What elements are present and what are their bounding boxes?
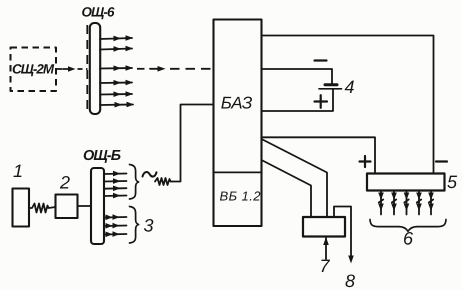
svg-text:5: 5: [447, 172, 458, 192]
box СЩ-2М (dashed unit): [11, 48, 57, 92]
arrow on axis line: [150, 66, 166, 72]
svg-text:7: 7: [319, 256, 330, 276]
minus label of battery: [315, 59, 327, 61]
AC tilde: [143, 172, 157, 177]
plus label of 5: [360, 156, 371, 167]
step wire to arrow 8: [334, 207, 351, 258]
svg-text:ОЩ-Б: ОЩ-Б: [83, 148, 121, 164]
svg-text:3: 3: [143, 215, 153, 235]
wire battery top: [262, 69, 333, 84]
radiation arrow a1: [100, 35, 133, 41]
radiation arrow a2: [100, 46, 133, 52]
bottom group arrow b2: [104, 223, 127, 229]
wire battery bottom: [262, 90, 334, 112]
bar ОЩ-Б: [91, 168, 104, 244]
dashed axis line to БАЗ: [137, 68, 213, 70]
cable lower diagonal to 7: [262, 160, 312, 217]
brace bottom group: [130, 207, 139, 244]
svg-text:2: 2: [59, 172, 70, 192]
divider line of block: [214, 171, 262, 173]
box 2: [56, 195, 78, 219]
screen dashed line left of radiator: [86, 25, 88, 113]
down arrow d2: [391, 191, 397, 215]
svg-text:8: 8: [345, 271, 355, 290]
wire dashed feed СЩ-2М to ОЩ-6: [57, 68, 88, 70]
arrow 7 up into box: [323, 237, 329, 259]
box 5: [367, 174, 445, 191]
down arrow d1: [378, 191, 384, 215]
arrowhead 8: [348, 256, 354, 264]
arrow on feed line: [63, 66, 76, 72]
box 7: [303, 217, 345, 237]
radiation arrow a3 (axis): [100, 65, 133, 71]
box 1: [13, 189, 30, 227]
down arrow d3: [404, 191, 410, 215]
battery 4 short plate: [325, 83, 337, 86]
wire to plus of 5: [262, 137, 376, 173]
brace top group: [130, 165, 139, 200]
svg-text:1: 1: [13, 161, 23, 181]
radiation arrow a5: [100, 91, 133, 97]
battery 4 long plate: [319, 88, 342, 90]
squiggle wire 1 to 2: [29, 204, 56, 213]
wire top bus to minus of 5: [262, 36, 434, 174]
squiggle wire after tilde: [155, 178, 173, 185]
brace 6: [370, 220, 446, 232]
svg-text:6: 6: [403, 228, 414, 248]
svg-text:БАЗ: БАЗ: [221, 93, 253, 112]
radiation arrow a4: [100, 80, 133, 86]
top group arrow t2: [104, 178, 127, 184]
wire tilde up to БАЗ: [173, 105, 214, 182]
down arrow d4: [416, 191, 422, 215]
svg-text:ОЩ-6: ОЩ-6: [81, 4, 115, 19]
plus label of battery: [315, 95, 328, 108]
block БАЗ / ВБ 1.2: [214, 20, 262, 227]
svg-text:СЩ-2М: СЩ-2М: [12, 61, 55, 76]
top group arrow t3: [104, 186, 127, 192]
radiation arrow a6: [100, 102, 134, 108]
radiator bar ОЩ-6: [90, 23, 100, 114]
cable upper diagonal to 7: [262, 139, 328, 217]
svg-text:ВБ 1.2: ВБ 1.2: [219, 188, 261, 203]
bottom group arrow b3: [104, 231, 127, 237]
svg-text:4: 4: [344, 77, 354, 97]
wire 2 to bar: [78, 205, 92, 207]
top group arrow t4: [104, 193, 127, 199]
bottom group arrow b1: [104, 214, 127, 220]
down arrow d5: [428, 191, 434, 215]
minus label of 5: [436, 160, 447, 162]
top group arrow t1: [104, 171, 127, 177]
